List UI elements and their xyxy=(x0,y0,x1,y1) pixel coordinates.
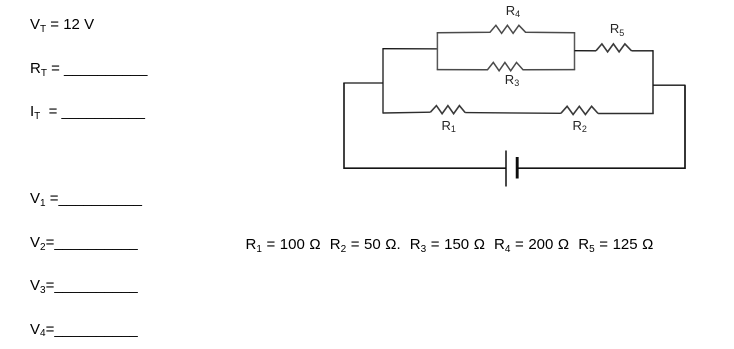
resistor R5 reference label xyxy=(610,22,624,36)
wire left outer vertical rail xyxy=(343,83,345,169)
wire left inner vertical xyxy=(382,49,384,114)
wire right outer vertical rail xyxy=(684,85,686,169)
value label RT blank xyxy=(30,60,147,77)
battery VT short plate xyxy=(516,157,519,179)
wire lower branch middle segment xyxy=(465,112,561,115)
resistor R4 (top edge of parallel box) xyxy=(437,25,576,33)
resistor R2 xyxy=(561,106,598,114)
value labels resistor values line xyxy=(246,236,654,253)
battery VT long plate xyxy=(505,151,507,187)
resistor R3 reference label xyxy=(505,73,519,87)
resistor R1 xyxy=(430,106,465,114)
node parallel box left edge xyxy=(436,33,438,70)
wire entry to parallel box xyxy=(382,48,437,50)
node parallel box right edge xyxy=(574,33,576,70)
wire lower branch left segment xyxy=(383,111,430,114)
wire bottom right (battery to right rail) xyxy=(517,167,685,169)
wire left connector xyxy=(343,82,383,84)
value label V1 blank xyxy=(30,190,142,207)
resistor R5 xyxy=(596,44,632,52)
value label V2 blank xyxy=(30,234,138,251)
value label IT blank xyxy=(30,103,145,120)
wire right inner vertical xyxy=(652,50,654,114)
value label V4 blank xyxy=(30,321,138,338)
resistor R2 reference label xyxy=(573,119,587,133)
value label V3 blank xyxy=(30,277,138,294)
resistor R4 reference label xyxy=(506,4,520,18)
resistor R3 (bottom edge of parallel box) xyxy=(437,62,576,70)
wire R5 to right inner vertical xyxy=(632,50,654,52)
wire bottom left (battery to left rail) xyxy=(344,167,506,169)
wire right connector xyxy=(653,84,686,86)
value label VT = 12 V xyxy=(30,16,94,33)
wire exit from box to R5 xyxy=(575,50,597,52)
wire lower branch right segment xyxy=(598,113,654,115)
resistor R1 reference label xyxy=(442,119,456,133)
